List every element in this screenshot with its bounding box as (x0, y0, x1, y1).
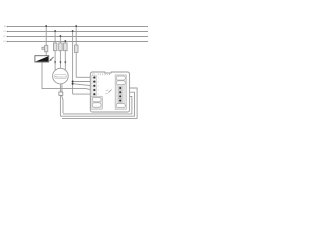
svg-text:4: 4 (98, 90, 99, 92)
svg-text:1: 1 (98, 77, 99, 79)
svg-text:123456: 123456 (98, 74, 112, 76)
svg-text:3: 3 (98, 86, 99, 88)
svg-text:2: 2 (98, 81, 99, 83)
svg-text:Résistance: Résistance (55, 76, 67, 79)
svg-text:5: 5 (98, 94, 99, 96)
svg-text:ou1: ou1 (106, 90, 109, 92)
